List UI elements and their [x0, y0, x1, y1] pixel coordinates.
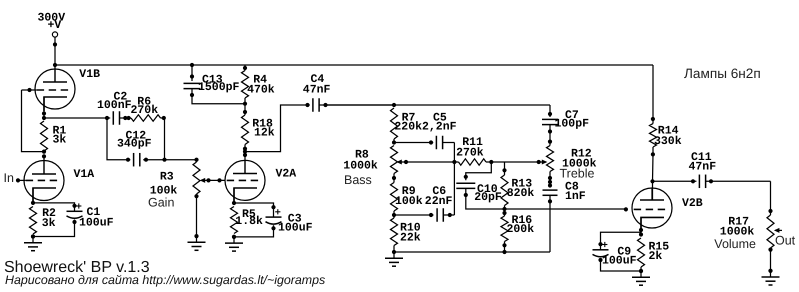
svg-text:Treble: Treble — [560, 166, 595, 180]
svg-text:V1A: V1A — [74, 168, 95, 181]
svg-text:100pF: 100pF — [555, 118, 590, 131]
svg-text:1nF: 1nF — [565, 190, 586, 203]
svg-text:Лампы 6н2п: Лампы 6н2п — [684, 66, 761, 81]
svg-text:+V: +V — [48, 19, 62, 32]
svg-text:22nF: 22nF — [425, 195, 453, 208]
svg-text:100nF: 100nF — [97, 99, 132, 112]
svg-text:V2A: V2A — [276, 167, 297, 180]
svg-text:820k: 820k — [507, 187, 535, 200]
svg-text:Bass: Bass — [344, 173, 372, 187]
svg-text:220k2,2nF: 220k2,2nF — [394, 121, 456, 134]
svg-text:47nF: 47nF — [689, 161, 717, 174]
svg-text:22k: 22k — [400, 232, 421, 245]
svg-text:Out: Out — [775, 233, 796, 247]
svg-text:1500pF: 1500pF — [198, 81, 240, 94]
svg-text:V2B: V2B — [682, 197, 703, 210]
svg-text:V1B: V1B — [79, 68, 100, 81]
svg-text:Volume: Volume — [714, 237, 756, 251]
svg-text:1000k: 1000k — [343, 160, 378, 173]
svg-text:330k: 330k — [654, 135, 682, 148]
svg-text:2k: 2k — [649, 250, 663, 263]
svg-text:47nF: 47nF — [303, 83, 331, 96]
svg-text:R3: R3 — [160, 171, 174, 184]
svg-text:270k: 270k — [131, 104, 159, 117]
svg-text:3k: 3k — [53, 133, 67, 146]
svg-text:470k: 470k — [247, 83, 275, 96]
svg-text:100uF: 100uF — [79, 217, 114, 230]
svg-text:340pF: 340pF — [117, 137, 152, 150]
svg-text:100k: 100k — [395, 195, 423, 208]
svg-text:In: In — [4, 171, 14, 185]
svg-text:100uF: 100uF — [278, 222, 313, 235]
svg-text:Нарисовано для сайта http://ww: Нарисовано для сайта http://www.sugardas… — [5, 273, 325, 287]
svg-text:12k: 12k — [254, 127, 275, 140]
svg-text:3k: 3k — [42, 217, 56, 230]
svg-text:100uF: 100uF — [602, 254, 637, 267]
svg-text:1.8k: 1.8k — [235, 215, 263, 228]
svg-text:20pF: 20pF — [474, 191, 502, 204]
svg-text:Gain: Gain — [148, 196, 174, 210]
svg-text:200k: 200k — [507, 223, 535, 236]
svg-text:270k: 270k — [456, 147, 484, 160]
